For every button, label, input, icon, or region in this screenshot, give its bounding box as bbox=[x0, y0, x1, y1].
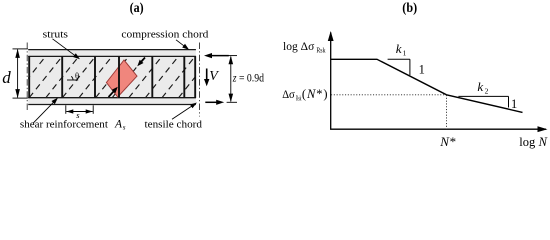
svg-text:compression chord: compression chord bbox=[121, 29, 209, 41]
svg-text:(a): (a) bbox=[130, 0, 144, 15]
svg-text:tensile chord: tensile chord bbox=[145, 118, 203, 130]
svg-text:Rsk: Rsk bbox=[316, 46, 325, 55]
svg-text:θ: θ bbox=[75, 70, 79, 80]
svg-text:Δσ: Δσ bbox=[282, 87, 295, 101]
svg-text:1: 1 bbox=[403, 49, 407, 58]
svg-text:s: s bbox=[123, 124, 126, 132]
svg-text:log: log bbox=[519, 135, 536, 149]
svg-text:1: 1 bbox=[511, 97, 517, 111]
svg-text:d: d bbox=[2, 68, 11, 87]
svg-text:(N*): (N*) bbox=[302, 87, 329, 101]
svg-text:V: V bbox=[209, 69, 219, 84]
svg-text:log Δσ: log Δσ bbox=[283, 39, 315, 53]
svg-text:N: N bbox=[538, 135, 548, 149]
svg-text:(b): (b) bbox=[402, 0, 417, 15]
svg-text:Rsk: Rsk bbox=[296, 94, 302, 102]
svg-text:k: k bbox=[396, 41, 402, 56]
svg-text:shear reinforcement: shear reinforcement bbox=[20, 118, 108, 130]
svg-text:z = 0.9d: z = 0.9d bbox=[232, 73, 264, 85]
svg-text:2: 2 bbox=[485, 86, 489, 95]
svg-text:struts: struts bbox=[43, 29, 68, 41]
svg-text:A: A bbox=[114, 118, 123, 130]
svg-text:*: * bbox=[450, 134, 457, 149]
svg-text:1: 1 bbox=[419, 62, 425, 76]
svg-text:k: k bbox=[477, 79, 483, 94]
